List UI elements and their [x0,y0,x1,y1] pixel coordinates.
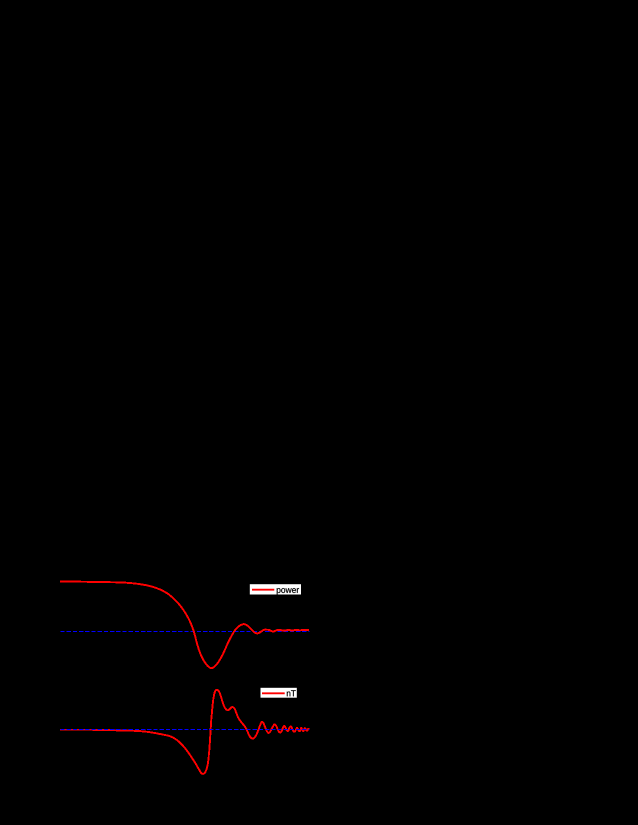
chart 1 zero line (blue dashed) [60,631,309,633]
chart 1 legend box [250,584,301,594]
chart 2 legend box [261,688,297,698]
chart 1 power curve [60,582,309,669]
chart 1 legend text "power" [277,588,299,595]
chart 2 nT curve [60,690,309,774]
chart 2 zero line (blue dashed) [60,729,309,731]
chart 2 legend text "nT" [287,690,296,696]
chart 2 legend sample line [262,692,285,694]
chart 1 legend sample line [252,589,274,591]
